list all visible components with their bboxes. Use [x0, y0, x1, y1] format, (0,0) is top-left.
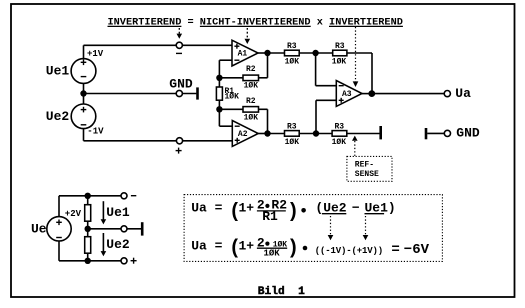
resistor R3 (reference) — [316, 122, 380, 147]
dashed arrow REF-SENSE — [352, 136, 358, 157]
terminal GND — [176, 90, 182, 96]
node A1 output — [264, 50, 270, 56]
svg-text:Ue1: Ue1 — [46, 63, 70, 78]
terminal minus input — [176, 42, 182, 48]
svg-text:SENSE: SENSE — [355, 170, 379, 179]
svg-text:A1: A1 — [238, 49, 248, 58]
voltage source Ue2 — [71, 104, 96, 129]
wire to Ua terminal — [372, 93, 445, 95]
svg-text:Ue2: Ue2 — [106, 237, 130, 252]
svg-text:1+: 1+ — [239, 201, 255, 216]
label + — [131, 258, 137, 264]
svg-text:GND: GND — [169, 77, 193, 92]
svg-text:Ue2: Ue2 — [46, 109, 70, 124]
terminal Ua — [444, 91, 450, 97]
node A3 output — [368, 90, 375, 97]
node A3 inverting — [312, 50, 318, 56]
resistor R2 (A1 feedback) — [219, 53, 267, 91]
resistor R1 — [216, 78, 239, 110]
label - — [131, 195, 136, 197]
formula box — [184, 195, 442, 262]
wire A3 inverting input — [316, 53, 337, 86]
svg-text:+1V: +1V — [87, 49, 104, 59]
svg-text:Ua =: Ua = — [191, 201, 222, 216]
svg-text:-1V: -1V — [87, 127, 104, 137]
svg-text:GND: GND — [456, 126, 480, 141]
terminal middle — [121, 226, 127, 232]
dashed arrow to op-amp A1 non-inverting input — [245, 28, 251, 44]
node A3 non-inverting — [313, 130, 319, 136]
voltage source Ue — [47, 217, 71, 241]
svg-text:): ) — [287, 201, 299, 224]
ground bar middle — [141, 222, 144, 235]
label - — [176, 52, 182, 54]
junction between Ue1 and Ue2 — [80, 90, 86, 96]
label Ue1 with arrow — [101, 201, 130, 224]
wire A2 inverting input — [219, 109, 232, 126]
svg-text:R2: R2 — [246, 97, 256, 106]
svg-text:R2: R2 — [246, 65, 256, 74]
svg-text:1ØK: 1ØK — [332, 138, 347, 147]
junction middle — [85, 226, 91, 232]
wire bottom rail to A2 + input — [84, 140, 233, 142]
svg-text:1ØK: 1ØK — [285, 138, 300, 147]
svg-text:Ue: Ue — [31, 222, 47, 237]
label + — [176, 148, 182, 154]
svg-text:+2V: +2V — [65, 209, 82, 219]
svg-text:1+: 1+ — [239, 239, 255, 254]
svg-text:Ua =: Ua = — [191, 239, 222, 254]
svg-text:1ØK: 1ØK — [332, 57, 347, 66]
svg-text:1ØK: 1ØK — [285, 58, 300, 67]
wire A3 non-inverting input — [316, 100, 336, 133]
divider resistor upper — [85, 196, 91, 229]
label Ue2 with arrow — [101, 233, 130, 256]
wire top rail to A1 + input — [84, 44, 233, 46]
node A1 feedback — [216, 75, 222, 81]
svg-text:REF-: REF- — [355, 161, 374, 170]
svg-text:=: = — [391, 242, 399, 258]
wire middle rail to GND — [84, 93, 197, 95]
resistor R2 (A2 feedback) — [219, 97, 267, 133]
wire Ue bottom — [59, 241, 121, 261]
junction bottom — [85, 258, 91, 264]
formula line 2 — [191, 235, 429, 260]
svg-text:): ) — [287, 238, 299, 261]
dashed arrow Ue1 to +1V — [363, 216, 369, 240]
ground bar GND — [196, 87, 199, 99]
wire Ue top — [59, 196, 121, 217]
terminal minus — [121, 193, 127, 199]
wire GND terminal — [427, 132, 444, 134]
wire A2 output — [258, 133, 267, 135]
svg-text:−: − — [352, 201, 360, 216]
terminal plus input — [176, 138, 182, 144]
op-amp A3 — [336, 81, 362, 107]
svg-text:−6V: −6V — [404, 242, 430, 258]
svg-text:R3: R3 — [287, 122, 297, 131]
op-amp A2 — [232, 121, 258, 147]
title INVERTIEREND = NICHT-INVERTIEREND x INVERTIEREND — [108, 16, 403, 28]
voltage source Ue1 — [71, 59, 96, 84]
dashed arrow Ue2 to -1V — [328, 216, 334, 240]
wire Ue2 bottom stub — [83, 129, 85, 141]
svg-text:R1: R1 — [262, 209, 278, 224]
svg-text:((-1V)-(+1V)): ((-1V)-(+1V)) — [315, 246, 384, 256]
wire A3 output — [362, 93, 372, 95]
ground bar reference — [379, 126, 382, 139]
svg-text:A3: A3 — [342, 90, 352, 99]
wire A1 inverting input — [219, 60, 232, 78]
terminal GND right — [444, 130, 450, 136]
node A2 feedback — [216, 106, 222, 112]
svg-text:Bild 1: Bild 1 — [258, 286, 305, 298]
dashed arrow to inverting input terminal — [177, 28, 183, 39]
divider resistor lower — [85, 229, 91, 261]
ground bar right GND — [425, 128, 428, 139]
wire Ue1 top stub — [83, 45, 85, 58]
svg-text:1ØK: 1ØK — [264, 248, 281, 258]
svg-text:R3: R3 — [287, 42, 297, 51]
terminal plus — [121, 258, 127, 264]
junction top — [85, 193, 91, 199]
svg-text:1ØK: 1ØK — [225, 93, 240, 102]
svg-text:Ua: Ua — [455, 86, 471, 101]
svg-text:R3: R3 — [334, 122, 344, 131]
resistor R3 (A1 to A3) — [268, 42, 316, 67]
box REF-SENSE — [347, 156, 392, 181]
wire middle to ground — [88, 228, 141, 230]
resistor R3 (A3 feedback) — [316, 42, 372, 94]
svg-text:R3: R3 — [335, 42, 345, 51]
svg-text:1ØK: 1ØK — [244, 114, 259, 123]
node A2 output — [264, 130, 270, 136]
op-amp A1 — [232, 40, 258, 66]
svg-text:Ue1: Ue1 — [106, 205, 130, 220]
wire between sources — [83, 83, 85, 104]
resistor R3 (A2 to A3) — [268, 122, 317, 147]
svg-text:1ØK: 1ØK — [244, 82, 259, 91]
svg-text:A2: A2 — [238, 130, 248, 139]
dashed arrow to op-amp A3 — [353, 27, 359, 87]
formula line 1 — [191, 198, 396, 225]
wire A1 output — [258, 52, 268, 54]
